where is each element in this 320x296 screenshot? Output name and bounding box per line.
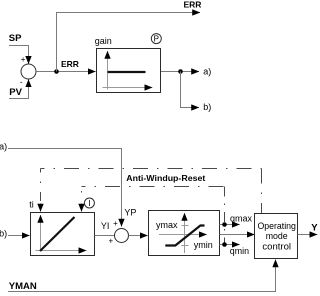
svg-text:ymin: ymin <box>194 240 213 250</box>
svg-text:PV: PV <box>9 87 22 98</box>
svg-text:P: P <box>154 35 159 44</box>
svg-text:ERR: ERR <box>184 0 202 10</box>
svg-text:+: + <box>109 237 114 246</box>
svg-text:+: + <box>21 55 26 64</box>
svg-text:gain: gain <box>95 36 112 46</box>
svg-text:mode: mode <box>266 231 288 241</box>
svg-text:a): a) <box>0 141 7 151</box>
svg-text:b): b) <box>203 102 211 112</box>
svg-text:+: + <box>113 219 118 228</box>
svg-text:a): a) <box>203 67 211 77</box>
svg-text:Operating: Operating <box>257 221 296 231</box>
svg-text:YI: YI <box>101 221 110 231</box>
svg-text:YMAN: YMAN <box>9 281 37 292</box>
svg-text:YP: YP <box>124 208 136 218</box>
svg-text:b): b) <box>0 229 7 239</box>
svg-text:ymax: ymax <box>156 220 178 230</box>
svg-text:-: - <box>20 78 23 87</box>
svg-text:Anti-Windup-Reset: Anti-Windup-Reset <box>126 173 205 183</box>
svg-text:SP: SP <box>9 33 22 44</box>
svg-text:qmin: qmin <box>230 246 249 256</box>
svg-text:I: I <box>88 199 90 208</box>
svg-text:qmax: qmax <box>230 213 252 223</box>
svg-text:control: control <box>262 241 291 251</box>
svg-text:ti: ti <box>29 200 34 210</box>
svg-text:ERR: ERR <box>61 59 79 69</box>
svg-text:Y: Y <box>311 222 318 233</box>
